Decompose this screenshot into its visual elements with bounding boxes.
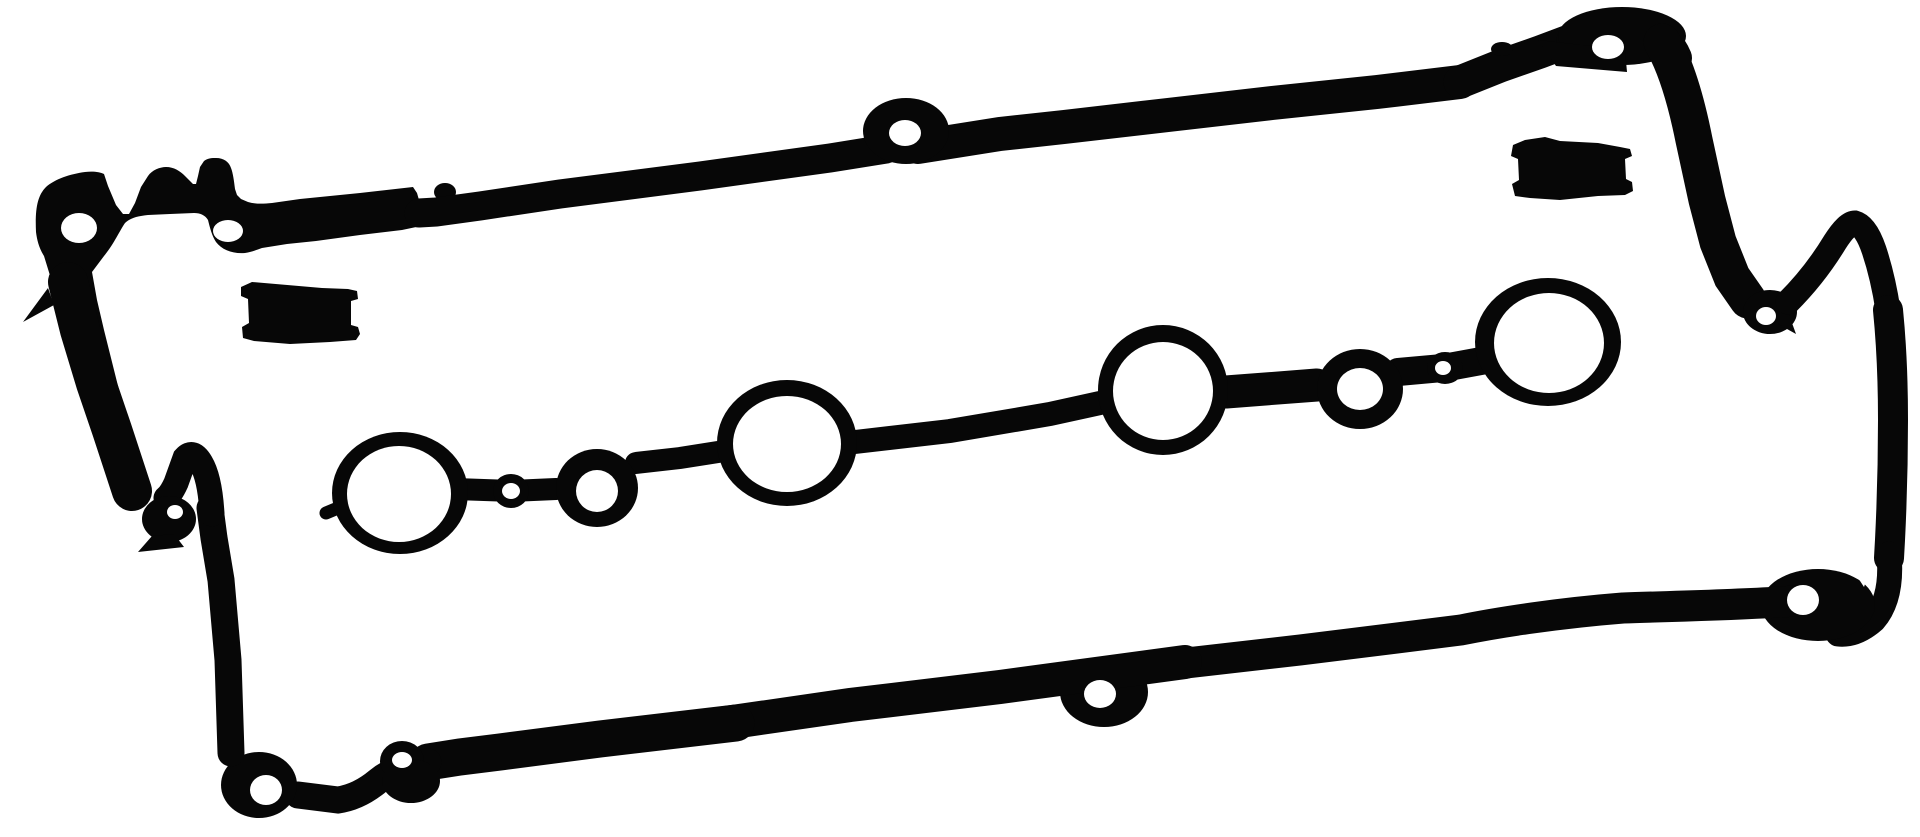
seal block left <box>241 282 360 344</box>
bolt bulge bottom-left corner <box>221 752 297 818</box>
filler under top-right corner band <box>1538 40 1627 72</box>
ring 6 outer <box>1475 278 1621 406</box>
gasket outer loop: top band to right corner <box>1460 40 1572 82</box>
blob around tiny hole 1 <box>493 474 529 508</box>
gasket outer loop: top band after middle bolt <box>918 82 1460 147</box>
gasket outer loop: right descending band <box>1662 42 1748 300</box>
pointed tail right bolt <box>1778 312 1796 334</box>
gasket outer loop: bottom band to left corner <box>298 762 428 800</box>
tab on top band x445 <box>434 183 456 201</box>
gasket outer loop: left vertical band <box>210 508 231 753</box>
bolt hole right side white <box>1756 307 1776 325</box>
bar ring5 to ring6 <box>1398 359 1492 372</box>
bolt hole top middle white <box>889 120 921 146</box>
bar ring1 to ring2 <box>455 489 556 491</box>
ring 2 outer <box>556 449 638 527</box>
left small hole blob <box>142 496 196 542</box>
bolt hole bottom-right white <box>1787 585 1819 615</box>
bolt bulge bottom middle <box>1060 657 1148 727</box>
cam ring chain: bar stub left of ring 1 <box>326 508 338 513</box>
bolt bulge bottom-left small <box>380 741 424 781</box>
bolt hole bottom-left corner white <box>250 775 282 805</box>
bolt bulge bottom-right <box>1761 569 1875 641</box>
bolt bulge top-right corner <box>1558 7 1686 65</box>
ring 5 inner white <box>1337 368 1383 410</box>
gasket outer loop: top-right corner arc <box>1572 29 1676 58</box>
left blob hole white <box>167 505 183 519</box>
bolt bulge top middle <box>863 98 949 164</box>
gasket outer loop: left upper edge band <box>68 282 132 491</box>
ring 1 inner white <box>347 446 451 542</box>
gasket outer loop: top band long run <box>419 149 886 213</box>
gasket outer loop: left zigzag peak and valley <box>166 454 212 514</box>
blob around tiny hole 2 <box>1427 352 1463 384</box>
bar ring4 to ring5 <box>1226 385 1317 392</box>
tiny hole 2 white <box>1435 361 1451 375</box>
bar ring2 to ring3 <box>636 452 718 463</box>
ring 1 outer <box>332 432 468 554</box>
ring 3 outer <box>717 380 857 506</box>
gasket outer loop: bottom band left run <box>428 723 736 762</box>
gasket outer loop: bottom-right corner turn <box>1838 554 1890 634</box>
bolt hole second top-left white <box>213 220 243 242</box>
left blob tail <box>138 534 184 552</box>
tiny hole 1 white <box>502 483 520 499</box>
gasket outer loop: right edge descending to bottom corner <box>1888 310 1893 558</box>
gasket outer loop: bottom band middle run <box>712 662 1185 725</box>
tab near top-right corner <box>1491 42 1513 56</box>
bolt bulge right side <box>1743 290 1797 334</box>
seal block right <box>1511 137 1633 200</box>
gasket outer loop: bottom band right run <box>1160 601 1795 666</box>
ring 4 inner white <box>1113 342 1213 440</box>
gasket top-left corner block with humps (filled) <box>36 158 421 403</box>
bolt hole top-right white <box>1592 35 1624 59</box>
ring 6 inner white <box>1494 293 1604 393</box>
ring 2 inner white <box>576 470 618 512</box>
bolt hole bottom middle white <box>1084 680 1116 708</box>
left edge pointed tail <box>23 288 54 322</box>
ring 5 outer <box>1317 349 1403 429</box>
bolt hole top-left white <box>61 213 97 243</box>
bar ring3 to ring4 <box>855 403 1100 442</box>
white wedge inside bottom-right corner <box>1847 558 1874 587</box>
gasket outer loop: rise to right peak and peak cap <box>1788 223 1888 310</box>
ring 3 inner white <box>733 396 841 492</box>
pointed tail below small bolt <box>382 759 440 803</box>
bolt hole bottom-left small white <box>392 752 412 768</box>
ring 4 outer <box>1098 325 1228 455</box>
